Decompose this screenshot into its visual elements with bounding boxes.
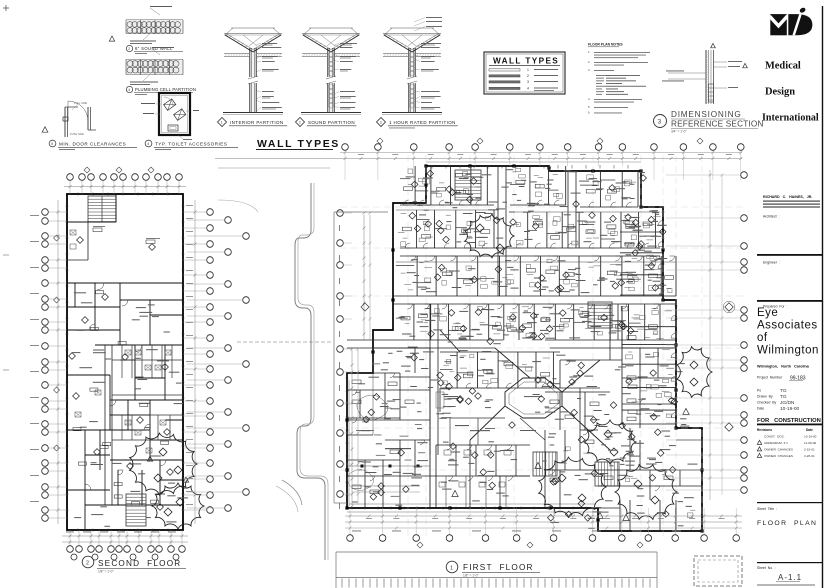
- second floor: top grid bubbles: [64, 167, 186, 194]
- detail: min door clearances: [42, 101, 137, 150]
- svg-text:3/4" = 1'-0": 3/4" = 1'-0": [671, 130, 687, 134]
- titleblock: prepared for: [757, 300, 822, 309]
- svg-text:2-15-01: 2-15-01: [804, 448, 815, 452]
- svg-text:A-1.1: A-1.1: [778, 573, 802, 582]
- first floor: revision clouds: [452, 214, 712, 520]
- svg-text:1: 1: [221, 121, 223, 125]
- detail: plumbing cell partition: [126, 47, 196, 95]
- svg-text:1/8" = 1'-0": 1/8" = 1'-0": [98, 570, 114, 574]
- svg-text:Date: Date: [757, 407, 764, 411]
- logo: MDI mark: [770, 7, 813, 36]
- svg-text:ADDENDUM # 1: ADDENDUM # 1: [764, 441, 788, 445]
- svg-text:2: 2: [128, 47, 130, 51]
- svg-text:Checked By: Checked By: [757, 401, 777, 405]
- first floor: label: [446, 561, 540, 577]
- svg-text:4.: 4.: [588, 97, 591, 101]
- svg-text:10-19-00: 10-19-00: [804, 435, 817, 439]
- svg-text:FLOOR PLAN: FLOOR PLAN: [757, 520, 817, 527]
- first floor: bottom dimension strings: [345, 508, 742, 548]
- first floor: exam room bands: [396, 166, 676, 424]
- svg-text:RICHARD C. HAINES, JR.: RICHARD C. HAINES, JR.: [763, 195, 812, 199]
- svg-text:3: 3: [380, 121, 382, 125]
- svg-text:FIRST FLOOR: FIRST FLOOR: [463, 563, 534, 572]
- svg-text:TYP. TOILET ACCESSORIES: TYP. TOILET ACCESSORIES: [155, 142, 227, 147]
- svg-text:TG: TG: [780, 388, 787, 394]
- svg-text:4: 4: [527, 87, 529, 91]
- title: wall types heading: [256, 138, 340, 150]
- second floor: right dimension bubbles: [183, 200, 249, 524]
- titleblock: for construction: [757, 418, 822, 425]
- svg-text:Engineer :: Engineer :: [763, 261, 780, 265]
- svg-text:JG/DN: JG/DN: [780, 400, 795, 406]
- svg-text:Sheet Title :: Sheet Title :: [757, 507, 777, 511]
- svg-text:SECOND FLOOR: SECOND FLOOR: [98, 559, 181, 568]
- svg-text:Date: Date: [806, 428, 813, 432]
- svg-text:FOR CONSTRUCTION: FOR CONSTRUCTION: [757, 418, 821, 424]
- first floor: gift shop area: [545, 392, 610, 430]
- svg-text:1 HOUR RATED PARTITION: 1 HOUR RATED PARTITION: [389, 120, 456, 125]
- first floor: central check-out and diagonals: [440, 170, 619, 486]
- svg-text:OWNER CHANGES: OWNER CHANGES: [764, 448, 793, 452]
- legend: wall types box: [484, 52, 565, 94]
- svg-text:of: of: [757, 332, 768, 344]
- second floor: revision clouds: [130, 433, 204, 529]
- svg-text:6.: 6.: [588, 111, 591, 115]
- first floor: corridor walls: [347, 166, 676, 455]
- titleblock: copyright: [757, 585, 815, 586]
- svg-text:REFERENCE SECTION: REFERENCE SECTION: [671, 120, 764, 129]
- titleblock: sheet title: [757, 502, 822, 527]
- svg-text:PUSH SIDE: PUSH SIDE: [70, 132, 84, 136]
- titleblock: architect label: [763, 215, 780, 219]
- svg-text:Design: Design: [765, 87, 795, 98]
- first floor: right dimension string: [666, 170, 747, 500]
- first floor: left wing rooms: [347, 348, 436, 508]
- svg-text:11-06-00: 11-06-00: [804, 441, 816, 445]
- detail: sound partition type 2: [296, 28, 362, 127]
- second floor: label: [82, 556, 186, 573]
- svg-text:PULL SIDE: PULL SIDE: [74, 101, 87, 105]
- svg-text:3-26-01: 3-26-01: [804, 454, 815, 458]
- notes: floor plan notes: [588, 43, 650, 115]
- titleblock: drawn by block: [757, 388, 800, 412]
- first floor: grid centerlines: [340, 155, 745, 540]
- svg-text:5.: 5.: [588, 105, 591, 109]
- detail: dimensioning reference section: [654, 43, 764, 133]
- svg-text:OWNER CHANGES: OWNER CHANGES: [764, 454, 793, 458]
- first floor: top dimension string: [215, 138, 744, 180]
- svg-text:Architect :: Architect :: [763, 215, 780, 219]
- second floor: bottom dimensions: [62, 530, 188, 560]
- svg-text:WALL TYPES: WALL TYPES: [257, 138, 340, 150]
- second floor: exterior walls: [66, 193, 185, 532]
- sheet: edge marks: [3, 5, 9, 370]
- first floor: lower right rooms: [545, 306, 702, 531]
- first floor: scattered room tags: [352, 169, 698, 529]
- svg-text:Medical: Medical: [765, 61, 801, 72]
- logo: medical design international wordmark: [762, 61, 819, 124]
- first floor: exterior walls: [345, 162, 703, 533]
- svg-text:2: 2: [299, 121, 301, 125]
- svg-text:Drawn By: Drawn By: [757, 395, 773, 399]
- svg-text:PLUMBING CELL PARTITION: PLUMBING CELL PARTITION: [135, 87, 196, 92]
- svg-text:Associates: Associates: [757, 320, 818, 332]
- titleblock: city state: [757, 365, 810, 369]
- svg-text:10-19-00: 10-19-00: [780, 406, 800, 412]
- site: parking hatch strip: [336, 552, 657, 588]
- svg-text:INTERIOR PARTITION: INTERIOR PARTITION: [230, 120, 284, 125]
- svg-text:MIN. DOOR CLEARANCES: MIN. DOOR CLEARANCES: [59, 142, 126, 147]
- svg-text:1: 1: [527, 68, 529, 72]
- sheet: title block border line: [822, 6, 824, 588]
- svg-text:1/8" = 1'-0": 1/8" = 1'-0": [463, 574, 479, 578]
- second floor: room tags and annotations: [69, 237, 189, 527]
- detail: typ toilet accessories: [109, 36, 238, 150]
- svg-text:1.: 1.: [588, 50, 591, 54]
- svg-text:2: 2: [86, 561, 89, 567]
- svg-text:4: 4: [128, 88, 130, 92]
- titleblock: sheet number: [757, 562, 822, 582]
- second floor: stair and expansion area: [67, 194, 160, 260]
- svg-text:Wilmington: Wilmington: [757, 345, 819, 357]
- detail: 1 hour rated partition type 3: [377, 17, 458, 128]
- svg-text:2: 2: [527, 74, 529, 78]
- svg-text:Eye: Eye: [757, 307, 778, 319]
- titleblock: revisions table: [757, 428, 817, 458]
- svg-text:2.: 2.: [588, 60, 591, 64]
- svg-text:Po: Po: [757, 389, 761, 393]
- detail: 6 inch sound wall: [126, 6, 183, 54]
- svg-text:1: 1: [450, 566, 453, 572]
- svg-text:Sheet No. :: Sheet No. :: [757, 566, 776, 570]
- titleblock: architect name: [763, 195, 820, 208]
- first floor: left dimension string: [334, 210, 388, 509]
- site: sidewalk and curbs: [218, 168, 332, 560]
- second floor: interior partitions: [67, 283, 183, 530]
- titleblock: project number: [757, 376, 806, 382]
- second floor: left grid bubbles: [30, 200, 67, 524]
- detail: interior partition type 1: [218, 28, 288, 127]
- svg-text:Project Number: Project Number: [757, 376, 783, 380]
- first floor: toilet cluster: [436, 445, 557, 508]
- svg-text:International: International: [762, 113, 819, 124]
- svg-text:TG: TG: [780, 394, 787, 400]
- titleblock: eye associates of wilmington: [757, 307, 819, 357]
- svg-text:SOUND PARTITION: SOUND PARTITION: [308, 120, 355, 125]
- svg-text:Wilmington, North Carolina: Wilmington, North Carolina: [757, 365, 810, 369]
- svg-text:4: 4: [147, 142, 149, 146]
- svg-text:CONST. DOC.: CONST. DOC.: [764, 435, 785, 439]
- svg-text:5: 5: [51, 142, 53, 146]
- svg-text:FLOOR PLAN NOTES: FLOOR PLAN NOTES: [588, 43, 623, 47]
- svg-text:3: 3: [527, 80, 529, 84]
- svg-text:Revisions: Revisions: [757, 428, 772, 432]
- svg-text:DIMENSIONING: DIMENSIONING: [671, 110, 742, 119]
- site: dashed pad: [694, 556, 742, 586]
- first floor: waiting area: [347, 348, 596, 508]
- svg-text:WALL TYPES: WALL TYPES: [493, 57, 559, 66]
- titleblock: engineer: [757, 254, 822, 265]
- svg-text:3.: 3.: [588, 68, 591, 72]
